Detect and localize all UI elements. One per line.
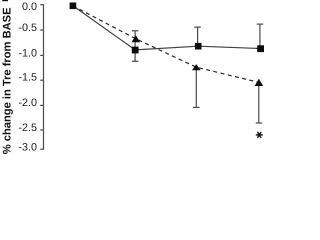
svg-text:% change in Tre from BASE: % change in Tre from BASE — [2, 7, 14, 154]
triangle marker point2 — [132, 35, 141, 42]
y-axis tick -2.5 — [40, 129, 43, 131]
y-axis tick -1.5 — [40, 79, 43, 81]
solid series line (squares) — [73, 6, 260, 50]
y-axis tick -2.0 — [40, 104, 43, 106]
dashed series line (triangles) — [73, 6, 259, 83]
y-axis tick 0.0 — [40, 4, 43, 6]
svg-text:-2.5: -2.5 — [18, 122, 37, 134]
square marker point2 — [132, 47, 139, 54]
significance asterisk — [256, 132, 262, 137]
y-axis tick -0.5 — [40, 29, 43, 31]
svg-text:-3.0: -3.0 — [18, 141, 37, 153]
square marker point4 — [257, 45, 264, 52]
triangle marker point3 — [192, 64, 201, 70]
error bar point4 up (squares series) — [259, 24, 261, 48]
y-axis tick -1.0 — [40, 54, 43, 56]
error bar point3 down (triangles series) — [195, 67, 197, 107]
cut-off glyph fragment at top edge — [2, 0, 8, 1]
svg-text:-1.0: -1.0 — [18, 48, 37, 60]
svg-text:-1.5: -1.5 — [18, 72, 37, 84]
svg-text:-2.0: -2.0 — [18, 97, 37, 109]
y-axis tick -3.0 — [40, 148, 43, 150]
square marker point3 — [195, 43, 202, 50]
error bar point3 up (squares series) — [197, 27, 199, 46]
square marker point1 — [70, 3, 77, 10]
error bar point4 down (triangles series) — [258, 83, 260, 123]
error bar point2 (up+down) — [134, 31, 136, 62]
svg-text:0.0: 0.0 — [22, 1, 37, 13]
svg-text:-0.5: -0.5 — [18, 22, 37, 34]
y-axis line — [43, 4, 45, 150]
triangle marker point4 — [255, 79, 264, 86]
